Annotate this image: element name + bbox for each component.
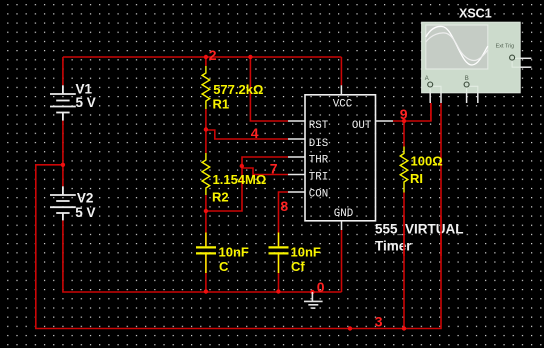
svg-text:THR: THR — [309, 154, 329, 166]
svg-text:OUT: OUT — [352, 120, 372, 132]
svg-text:C: C — [219, 259, 229, 274]
svg-text:0: 0 — [317, 279, 325, 295]
svg-text:Ext Trig: Ext Trig — [496, 44, 515, 50]
junction C-gnd rail — [204, 289, 208, 293]
svg-text:4: 4 — [251, 125, 259, 141]
wire node3 loop left and bottom — [36, 103, 441, 329]
resistor R2 — [202, 153, 210, 195]
svg-text:RST: RST — [309, 120, 329, 132]
resistor RI — [400, 147, 408, 193]
oscilloscope XSC1 — [422, 22, 521, 93]
svg-text:5 V: 5 V — [76, 95, 96, 110]
svg-text:3: 3 — [375, 314, 383, 330]
junction node7 — [240, 164, 244, 168]
svg-text:5 V: 5 V — [75, 205, 95, 220]
svg-text:Timer: Timer — [375, 239, 412, 254]
wire V2 bottom to ground rail — [63, 220, 342, 292]
ground — [304, 292, 323, 308]
svg-text:R1: R1 — [213, 97, 230, 112]
wire 555 GND drop — [341, 230, 343, 292]
wire OUT to RI — [403, 121, 405, 147]
svg-text:555_VIRTUAL: 555_VIRTUAL — [375, 222, 464, 237]
battery V2 — [50, 186, 76, 220]
capacitor Cf — [269, 233, 289, 274]
wire V1 to V2 — [62, 121, 64, 187]
svg-text:577.2kΩ: 577.2kΩ — [213, 82, 263, 97]
wire scope A to OUT — [430, 103, 432, 121]
junction node2-R1 — [204, 55, 208, 59]
wire RI segment over label — [403, 216, 405, 256]
svg-text:TRI: TRI — [309, 171, 328, 183]
capacitor C — [196, 233, 216, 274]
svg-text:CON: CON — [309, 189, 328, 201]
wire CON node8 to Cf — [279, 192, 289, 246]
wire RST — [250, 57, 288, 121]
junction OUT-RI — [402, 119, 406, 123]
svg-text:DIS: DIS — [309, 138, 328, 150]
wire TRI branch — [242, 168, 288, 175]
wire scope A- segment over label — [440, 216, 442, 256]
wire top rail node2 — [63, 56, 342, 58]
junction V1-V2 — [61, 163, 65, 167]
svg-text:10nF: 10nF — [291, 245, 321, 260]
battery V1 — [50, 85, 76, 120]
svg-text:10nF: 10nF — [219, 245, 249, 260]
wire DIS node4 — [206, 130, 288, 139]
svg-text:1.154MΩ: 1.154MΩ — [213, 172, 267, 187]
wire C bottom — [205, 252, 207, 292]
svg-text:2: 2 — [209, 47, 217, 63]
junction bottom rail a — [348, 326, 352, 330]
pin stubs 555 — [288, 85, 393, 230]
junction node2-RST — [248, 55, 252, 59]
wire R2 bottom to C — [205, 195, 207, 246]
svg-text:RI: RI — [410, 171, 423, 186]
resistor R1 — [202, 66, 210, 109]
op 555 timer U box — [305, 95, 376, 221]
wire RI bottom — [403, 193, 405, 329]
junction R1-R2-DIS — [204, 127, 208, 131]
svg-text:8: 8 — [280, 198, 288, 214]
wire R1-R2 link — [205, 109, 207, 153]
svg-text:7: 7 — [270, 161, 278, 177]
wire V1 top — [62, 57, 64, 85]
wire R1 top lead — [205, 57, 207, 66]
svg-text:V2: V2 — [77, 190, 94, 205]
svg-text:GND: GND — [334, 208, 353, 220]
svg-text:R2: R2 — [212, 190, 229, 205]
wire OUT node9 — [393, 103, 431, 121]
svg-text:XSC1: XSC1 — [459, 7, 492, 21]
svg-text:100Ω: 100Ω — [411, 154, 443, 169]
wire Cf bottom — [278, 252, 280, 292]
svg-text:B: B — [465, 76, 469, 82]
junction R2-C — [204, 209, 208, 213]
junction Cf-gnd rail — [276, 289, 280, 293]
svg-text:A: A — [425, 76, 429, 82]
wire VCC drop — [340, 57, 342, 85]
junction bottom rail RI — [402, 326, 406, 330]
svg-text:9: 9 — [400, 106, 408, 122]
svg-text:VCC: VCC — [333, 98, 353, 110]
svg-text:Cf: Cf — [291, 259, 305, 274]
junction ground symbol — [310, 290, 314, 294]
wire THR node7 — [206, 157, 288, 211]
scope pin stubs — [430, 58, 531, 103]
